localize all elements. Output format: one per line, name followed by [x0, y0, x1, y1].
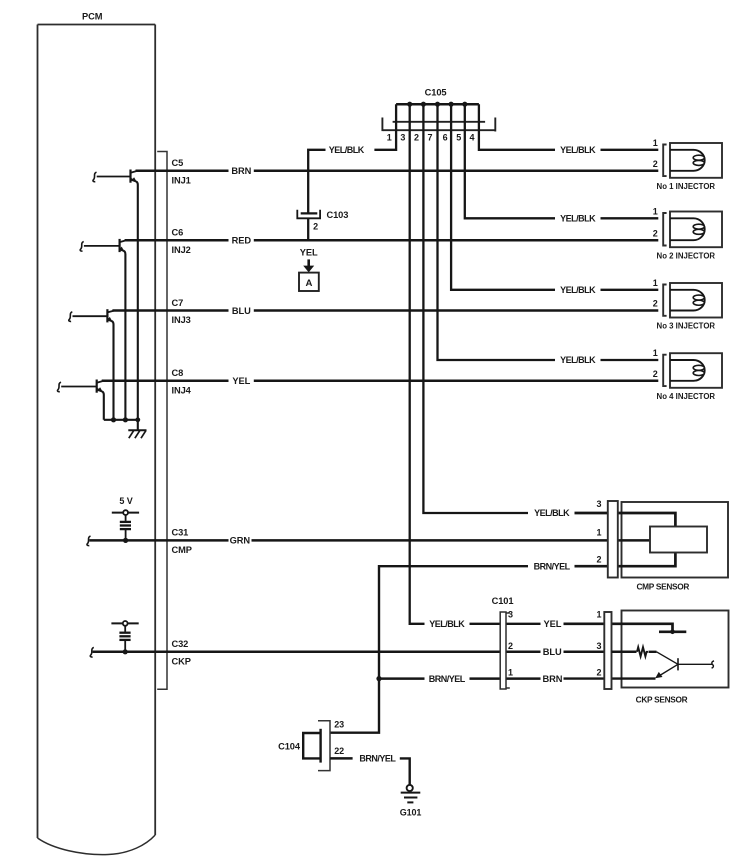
svg-text:G101: G101	[400, 807, 422, 817]
svg-text:A: A	[305, 278, 312, 289]
svg-text:BRN: BRN	[542, 674, 562, 684]
svg-text:2: 2	[596, 667, 601, 677]
svg-text:3: 3	[596, 499, 601, 509]
svg-text:C6: C6	[172, 228, 184, 238]
svg-text:BLU: BLU	[543, 647, 562, 657]
svg-text:PCM: PCM	[82, 12, 103, 22]
svg-text:1: 1	[508, 667, 513, 677]
svg-text:GRN: GRN	[230, 536, 251, 546]
svg-text:6: 6	[443, 133, 448, 143]
svg-text:CMP: CMP	[172, 545, 192, 555]
svg-text:22: 22	[334, 746, 344, 756]
svg-text:INJ4: INJ4	[172, 385, 192, 395]
svg-text:7: 7	[428, 133, 433, 143]
svg-text:2: 2	[653, 299, 658, 309]
svg-text:BRN/YEL: BRN/YEL	[429, 674, 466, 684]
svg-text:INJ3: INJ3	[172, 315, 191, 325]
svg-text:INJ1: INJ1	[172, 175, 191, 185]
svg-text:2: 2	[313, 221, 318, 231]
svg-text:2: 2	[653, 228, 658, 238]
svg-text:C103: C103	[327, 210, 349, 220]
svg-text:C104: C104	[278, 742, 301, 752]
svg-text:YEL/BLK: YEL/BLK	[560, 285, 596, 295]
svg-text:YEL: YEL	[232, 376, 250, 386]
svg-text:BLU: BLU	[232, 306, 251, 316]
svg-text:CKP: CKP	[172, 656, 191, 666]
svg-text:C5: C5	[172, 158, 184, 168]
svg-text:3: 3	[400, 133, 405, 143]
svg-text:2: 2	[414, 133, 419, 143]
svg-text:YEL/BLK: YEL/BLK	[560, 145, 596, 155]
svg-text:5: 5	[456, 133, 461, 143]
svg-text:3: 3	[596, 641, 601, 651]
svg-text:YEL/BLK: YEL/BLK	[560, 355, 596, 365]
svg-text:C7: C7	[172, 298, 184, 308]
svg-text:YEL: YEL	[544, 619, 562, 629]
svg-text:No 2 INJECTOR: No 2 INJECTOR	[657, 250, 716, 260]
svg-text:INJ2: INJ2	[172, 245, 191, 255]
svg-text:YEL: YEL	[300, 248, 318, 258]
svg-text:1: 1	[596, 609, 601, 619]
svg-text:2: 2	[653, 159, 658, 169]
svg-text:No 1 INJECTOR: No 1 INJECTOR	[657, 181, 716, 191]
svg-text:C105: C105	[425, 87, 447, 97]
svg-text:CMP SENSOR: CMP SENSOR	[636, 582, 689, 592]
svg-text:C31: C31	[172, 528, 189, 538]
svg-text:5 V: 5 V	[119, 496, 132, 506]
svg-text:CKP SENSOR: CKP SENSOR	[636, 695, 688, 705]
svg-text:2: 2	[596, 554, 601, 564]
svg-text:YEL/BLK: YEL/BLK	[560, 214, 596, 224]
svg-text:1: 1	[653, 278, 658, 288]
svg-text:BRN/YEL: BRN/YEL	[359, 754, 396, 764]
svg-text:1: 1	[653, 206, 658, 216]
svg-text:YEL/BLK: YEL/BLK	[329, 145, 365, 155]
svg-text:C8: C8	[172, 368, 184, 378]
svg-text:BRN/YEL: BRN/YEL	[534, 561, 571, 571]
svg-text:YEL/BLK: YEL/BLK	[429, 619, 465, 629]
svg-text:RED: RED	[232, 236, 252, 246]
svg-text:C32: C32	[172, 639, 189, 649]
svg-text:C101: C101	[492, 596, 514, 606]
svg-text:No 4 INJECTOR: No 4 INJECTOR	[657, 391, 716, 401]
svg-text:2: 2	[508, 641, 513, 651]
svg-text:No 3 INJECTOR: No 3 INJECTOR	[657, 321, 716, 331]
svg-text:BRN: BRN	[231, 166, 251, 176]
svg-text:23: 23	[334, 720, 344, 730]
svg-text:1: 1	[653, 348, 658, 358]
svg-text:2: 2	[653, 369, 658, 379]
svg-text:YEL/BLK: YEL/BLK	[534, 508, 570, 518]
svg-text:1: 1	[596, 527, 601, 537]
svg-text:4: 4	[469, 133, 474, 143]
svg-text:1: 1	[653, 138, 658, 148]
svg-text:1: 1	[387, 133, 392, 143]
svg-text:3: 3	[508, 609, 513, 619]
